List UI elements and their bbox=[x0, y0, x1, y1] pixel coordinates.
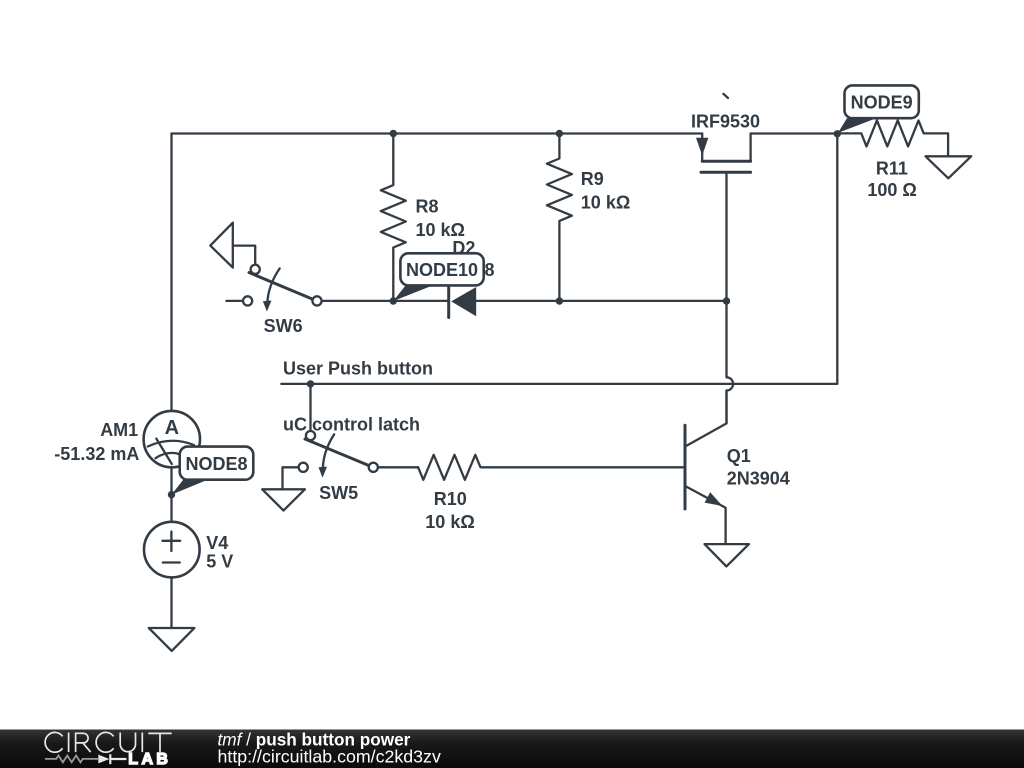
emitter bbox=[687, 487, 726, 544]
wire SW6 to D2 bbox=[322, 300, 449, 302]
callout NODE9 bbox=[838, 85, 919, 132]
source arrow bbox=[696, 138, 708, 156]
logo squiggle resistor bbox=[45, 756, 98, 763]
source V4 bbox=[144, 522, 200, 578]
source lead bbox=[701, 134, 703, 162]
stray tick mark bbox=[723, 94, 728, 98]
ground below V4 bbox=[149, 628, 195, 651]
svg-text:uC control latch: uC control latch bbox=[283, 415, 420, 435]
collector bbox=[687, 391, 727, 446]
ground right of R11 bbox=[926, 156, 972, 178]
switch SW5 bbox=[262, 384, 378, 511]
transistor M1 IRF9530 PMOS bbox=[696, 134, 751, 302]
port arrow bbox=[210, 223, 233, 268]
drain lead bbox=[749, 134, 751, 162]
svg-text:NODE9: NODE9 bbox=[851, 93, 913, 113]
logo CIRCUIT (thin custom letters) bbox=[45, 732, 172, 752]
resistor R10 bbox=[418, 455, 685, 480]
wire top rail right of M1 bbox=[751, 132, 838, 134]
svg-text:NODE10: NODE10 bbox=[406, 260, 478, 280]
svg-text:http://circuitlab.com/c2kd3zv: http://circuitlab.com/c2kd3zv bbox=[218, 747, 441, 767]
svg-text:IRF9530: IRF9530 bbox=[691, 112, 760, 132]
left throw to ground bbox=[283, 467, 299, 489]
wire V4 to ground bbox=[170, 577, 172, 628]
top terminal bbox=[251, 265, 260, 274]
logo diode bbox=[98, 755, 109, 764]
bracket to top terminal bbox=[233, 246, 255, 265]
svg-text:R10: R10 bbox=[434, 489, 467, 509]
top throw terminal bbox=[306, 431, 315, 440]
svg-text:SW5: SW5 bbox=[319, 483, 358, 503]
transistor Q1 2N3904 bbox=[685, 391, 749, 567]
svg-text:10 kΩ: 10 kΩ bbox=[425, 512, 474, 532]
node dot R9 bottom bbox=[556, 297, 563, 304]
common terminal bbox=[369, 463, 378, 472]
ammeter AM1 bbox=[144, 411, 200, 467]
svg-text:2N3904: 2N3904 bbox=[727, 468, 790, 488]
svg-text:AM1: AM1 bbox=[100, 420, 138, 440]
diode D2 bbox=[449, 287, 477, 318]
actuation arrow arc bbox=[267, 268, 279, 303]
node dot push button tap bbox=[307, 380, 314, 387]
lever bbox=[249, 273, 313, 300]
left throw stub bbox=[226, 300, 243, 302]
plus bbox=[162, 532, 180, 552]
callout NODE10 bbox=[393, 253, 483, 301]
node dot gate junction bbox=[723, 297, 730, 304]
svg-text:A: A bbox=[165, 417, 179, 439]
svg-text:R9: R9 bbox=[581, 169, 604, 189]
svg-text:V4: V4 bbox=[206, 533, 228, 553]
meter needle bbox=[156, 439, 172, 464]
resistor R8 bbox=[381, 134, 406, 302]
left throw terminal bbox=[299, 463, 308, 472]
svg-text:R11: R11 bbox=[876, 158, 908, 178]
ground at Q1 bbox=[705, 544, 750, 566]
svg-text:SW6: SW6 bbox=[264, 316, 303, 336]
wire AM1 to V4 bbox=[170, 467, 172, 522]
common terminal bbox=[312, 296, 321, 305]
svg-text:10 kΩ: 10 kΩ bbox=[416, 220, 465, 240]
callout NODE8 bbox=[172, 447, 254, 495]
base bar bbox=[684, 425, 687, 509]
svg-text:R8: R8 bbox=[416, 196, 439, 216]
gate lead bbox=[725, 172, 727, 301]
svg-text:10 kΩ: 10 kΩ bbox=[581, 193, 630, 213]
wire from push rail to top throw bbox=[309, 384, 311, 431]
meter arc small bbox=[156, 453, 181, 458]
node dot R8 bottom / NODE10 bbox=[390, 297, 397, 304]
wire SW5 to R10 bbox=[378, 466, 418, 468]
wire NODE9 vertical and push button rail bbox=[281, 134, 837, 384]
svg-text:NODE8: NODE8 bbox=[185, 454, 247, 474]
emitter arrow bbox=[705, 492, 723, 506]
actuation arrow arc bbox=[323, 434, 334, 469]
node dot NODE9 bbox=[834, 130, 841, 137]
node dot R9 top bbox=[556, 130, 563, 137]
resistor R11 bbox=[837, 120, 948, 156]
meter arc big bbox=[148, 441, 194, 447]
node dot R8 top bbox=[390, 130, 397, 137]
minus bbox=[163, 561, 180, 563]
svg-text:LAB: LAB bbox=[128, 751, 171, 768]
wire top rail left of M1 bbox=[172, 132, 703, 134]
svg-text:100 Ω: 100 Ω bbox=[867, 180, 916, 200]
wire left vertical from top rail to AM1 bbox=[170, 134, 172, 412]
svg-text:-51.32 mA: -51.32 mA bbox=[54, 444, 139, 464]
resistor R9 bbox=[547, 134, 572, 302]
wire gate to Q1 collector with hop over push rail bbox=[727, 301, 734, 423]
node NODE8 junction dot bbox=[168, 491, 175, 498]
svg-text:Q1: Q1 bbox=[727, 446, 751, 466]
svg-text:User Push button: User Push button bbox=[283, 359, 433, 379]
wire D2 to gate junction bbox=[476, 300, 726, 302]
svg-text:8: 8 bbox=[485, 260, 495, 280]
switch SW6 bbox=[210, 223, 321, 312]
svg-text:5 V: 5 V bbox=[206, 552, 233, 572]
channel bar bbox=[702, 160, 750, 163]
lever bbox=[305, 439, 369, 466]
gate bar bbox=[701, 171, 751, 174]
left throw terminal bbox=[243, 296, 252, 305]
ground at SW5 bbox=[262, 489, 305, 510]
